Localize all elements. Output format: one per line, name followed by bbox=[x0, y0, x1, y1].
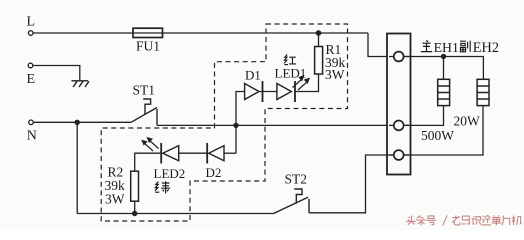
heater EH1 bbox=[438, 79, 450, 105]
wm tu (途) bbox=[482, 215, 492, 225]
wire N junction down to bottom rail bbox=[76, 122, 78, 213]
wire R2 bottom stub bbox=[134, 201, 136, 213]
svg-text:ST2: ST2 bbox=[285, 172, 308, 187]
svg-text:EH2: EH2 bbox=[473, 40, 499, 56]
svg-text:D1: D1 bbox=[245, 68, 261, 83]
wire LED1 to R1 bbox=[295, 74, 319, 92]
node EH1 junction bbox=[441, 54, 446, 59]
LED1 arrows bbox=[293, 76, 310, 90]
terminal L bbox=[28, 31, 33, 36]
wire N to ST1 bbox=[33, 121, 131, 123]
wire ST1 to terminal block bbox=[157, 124, 394, 126]
wm shi (识) bbox=[472, 216, 481, 225]
resistor R1 bbox=[315, 47, 323, 75]
wire D2 to riser bbox=[224, 152, 236, 154]
wire D1 to LED1 bbox=[259, 91, 277, 93]
wm tou (头) bbox=[406, 216, 416, 225]
label fu EH2 (副EH2) bbox=[460, 41, 470, 52]
wm tiao (条) bbox=[416, 216, 426, 226]
svg-text:L: L bbox=[27, 15, 36, 30]
svg-text:ST1: ST1 bbox=[133, 83, 156, 98]
diode D1 bbox=[245, 81, 263, 102]
svg-text:500W: 500W bbox=[421, 128, 454, 143]
heater EH2 bbox=[477, 79, 489, 105]
watermark toutiao red text bbox=[406, 215, 521, 225]
resistor R2 bbox=[131, 171, 139, 201]
diode D2 bbox=[207, 143, 224, 164]
wire L top line bbox=[33, 32, 368, 34]
fuse FU1 bbox=[133, 28, 163, 37]
terminal E bbox=[28, 63, 33, 68]
dashed boxes indicator groups bbox=[101, 24, 347, 221]
LED green LED2 bbox=[161, 143, 179, 164]
wire bottom rail bbox=[77, 213, 273, 215]
wm ji (机) bbox=[512, 216, 522, 226]
wire EH2 bottom to pin3 bbox=[404, 106, 483, 155]
wire E to ground bbox=[33, 66, 80, 81]
wm dan (单) bbox=[492, 215, 502, 225]
wire R1 top stub bbox=[318, 33, 320, 47]
wm lao (老) bbox=[452, 216, 460, 225]
svg-text:D2: D2 bbox=[206, 165, 222, 180]
svg-text:3W: 3W bbox=[325, 67, 345, 82]
node R2 bottom junction bbox=[132, 211, 137, 216]
switch ST2 bbox=[273, 189, 309, 214]
svg-text:3W: 3W bbox=[105, 192, 125, 207]
block pin 2 bbox=[389, 124, 409, 126]
wire R2 riser to LED2 bbox=[135, 153, 162, 171]
wire top right descent to block bbox=[368, 33, 394, 57]
node N junction bbox=[75, 120, 80, 125]
wire pin1 to heaters bbox=[404, 57, 484, 80]
wm ma (马) bbox=[462, 216, 470, 224]
svg-text:N: N bbox=[27, 129, 37, 144]
LED2 arrows bbox=[142, 138, 158, 151]
svg-text:LED2: LED2 bbox=[154, 166, 186, 181]
ground bbox=[71, 81, 89, 87]
svg-text:EH1: EH1 bbox=[434, 40, 459, 55]
block pin 1 bbox=[389, 56, 409, 58]
svg-text:20W: 20W bbox=[454, 114, 481, 129]
label green lv (绿) bbox=[155, 181, 170, 193]
wire EH1 bottom to pin2 bbox=[404, 106, 444, 126]
svg-text:FU1: FU1 bbox=[136, 39, 160, 54]
terminal block bbox=[387, 34, 411, 175]
label red hong (红) bbox=[284, 55, 296, 65]
svg-text:LED1: LED1 bbox=[275, 66, 307, 81]
wm slash bbox=[443, 215, 448, 225]
label zhu EH1 (主EH1) bbox=[421, 40, 432, 51]
wire ST2 to pin3 bbox=[309, 155, 394, 213]
block pin 3 bbox=[389, 154, 409, 156]
switch ST1 bbox=[131, 99, 157, 125]
wire EH1 stub bbox=[443, 57, 445, 80]
wm pian (片) bbox=[502, 216, 510, 226]
wire junction riser D1-D2 bbox=[236, 92, 245, 154]
LED D1red LED1 bbox=[277, 81, 295, 102]
wire LED2 to D2 bbox=[179, 152, 208, 154]
node ST1 output junction bbox=[233, 123, 238, 128]
svg-text:E: E bbox=[27, 72, 36, 87]
node R1 top junction bbox=[316, 30, 322, 36]
wm hao (号) bbox=[427, 216, 437, 225]
terminal N bbox=[29, 120, 34, 125]
